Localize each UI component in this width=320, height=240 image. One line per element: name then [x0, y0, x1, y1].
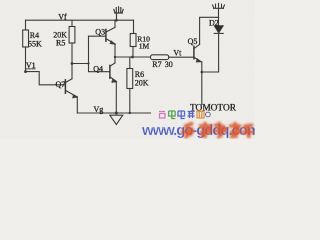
wire mid node to R7 [115, 56, 151, 58]
wire Q7 emitter down to bottom rail [76, 97, 78, 113]
resistor R10 [130, 34, 136, 47]
watermark www.go-gddq.com [141, 122, 260, 139]
power symbol supply right (above D2) [213, 3, 225, 17]
wire Q4 emitter down to ground rail [115, 81, 117, 113]
node junction dot R6/bottom rail [129, 112, 131, 114]
node junction dot rail/Q3 collector [115, 19, 118, 22]
watermark registered mark [206, 112, 211, 117]
watermark colored characters row [159, 111, 210, 119]
resistor R4 [25, 20, 27, 30]
wire rail corner down into R10 [133, 20, 135, 33]
wire R5 bottom lead down to Q7 collector [71, 43, 73, 79]
wire Q3 emitter down to mid node [114, 44, 116, 57]
transistor Q3 [89, 27, 116, 44]
wire Q3 base vertical drop and run to Q4 base [89, 36, 110, 71]
power symbol Vcc left (on rail) [114, 7, 123, 20]
resistor R5 [71, 20, 73, 26]
node junction dot motor node [201, 71, 204, 74]
node V1 junction dot [24, 70, 27, 73]
wire bottom rail (Vg net) [77, 112, 150, 114]
label R4 [25, 12, 237, 114]
watermark red stamp characters [181, 122, 254, 138]
wire R6 bottom lead to rail [129, 89, 131, 114]
wire top supply rail [26, 19, 134, 21]
ground symbol [110, 115, 123, 124]
transistor Q7 [65, 79, 77, 98]
wire Q5 collector up and over to supply node [200, 17, 219, 44]
wire mid node down to Q4 collector [114, 57, 116, 63]
node junction dot R5/cross-wire [71, 62, 74, 65]
decorative noise skipped labeling: background texture [0, 0, 1, 1]
wire step from node V1 to Q7 base [26, 72, 65, 85]
node junction dot R10/mid wire [131, 56, 134, 59]
node ground junction dot [115, 112, 118, 115]
node junction dot rung right [87, 62, 89, 64]
wire Q3 collector to top rail [114, 20, 116, 27]
resistor R6 [129, 57, 131, 69]
wire motor output drop (to motor) [201, 72, 203, 105]
wire motor node to D2 anode branch [202, 71, 219, 73]
wire R4 bottom lead to node V1 [25, 47, 27, 72]
resistor R7 (horizontal) [151, 55, 169, 60]
node mid junction dot [114, 56, 116, 58]
wire R10 bottom lead [132, 47, 134, 58]
diode D2 [214, 26, 223, 33]
wire cross rung to Q3 base drop [72, 63, 89, 65]
wire Vt net R7 to Q5 base [169, 56, 194, 58]
wire Q5 emitter down to motor node [201, 62, 203, 72]
wire D2 branch vertical [218, 17, 220, 72]
transistor Q4 [110, 63, 117, 83]
transistor Q5 [194, 44, 202, 62]
